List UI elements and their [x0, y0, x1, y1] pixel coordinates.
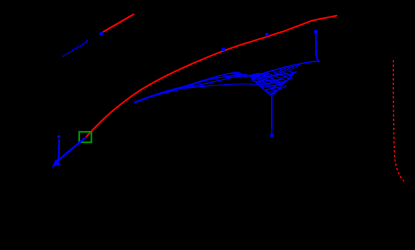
upper stable branch (red dotted segment)	[104, 14, 135, 32]
blue trajectory dots on red branch	[222, 48, 226, 52]
vertical drop line below fan apex	[271, 97, 273, 132]
vertical jump-up line	[315, 34, 317, 56]
blue dot on upper branch	[99, 32, 103, 36]
oscillation loop A (narrow lens)	[180, 73, 241, 89]
dot at top of jump line	[314, 30, 318, 34]
oscillation fan mesh: up-right diagonal strokes	[251, 71, 297, 94]
Z switchback at fan entrance	[244, 73, 263, 79]
fan upper dense rows	[247, 74, 288, 78]
slow manifold band: main strand	[134, 88, 181, 103]
trajectory return hook (J) going up	[57, 139, 59, 162]
dashed red limit-cycle curve at right	[393, 60, 404, 181]
fan left tail strands	[227, 73, 246, 74]
fan upper-right hatch toward long line	[277, 64, 301, 73]
oscillation fan mesh: down-right diagonal strokes	[246, 71, 294, 89]
hook at end of long line	[316, 56, 319, 62]
equilibrium dot at top of J	[57, 135, 60, 138]
long slow line to the jump point	[251, 61, 320, 77]
upper unstable branch (blue dotted segment)	[63, 40, 87, 56]
slow manifold band: upper hairline strand	[146, 90, 177, 98]
green square marker (initial condition)	[79, 132, 91, 143]
main red stable branch curve	[86, 16, 337, 137]
dot at bottom of drop line	[270, 133, 274, 137]
oscillation loop B (wider lens reaching the fan)	[181, 74, 246, 87]
fan inner horizontal serpentine rows	[257, 80, 285, 96]
arrowhead on trajectory	[53, 160, 60, 166]
blue trajectory from square toward lower-left	[57, 137, 87, 162]
fan funnel edges	[254, 72, 295, 97]
